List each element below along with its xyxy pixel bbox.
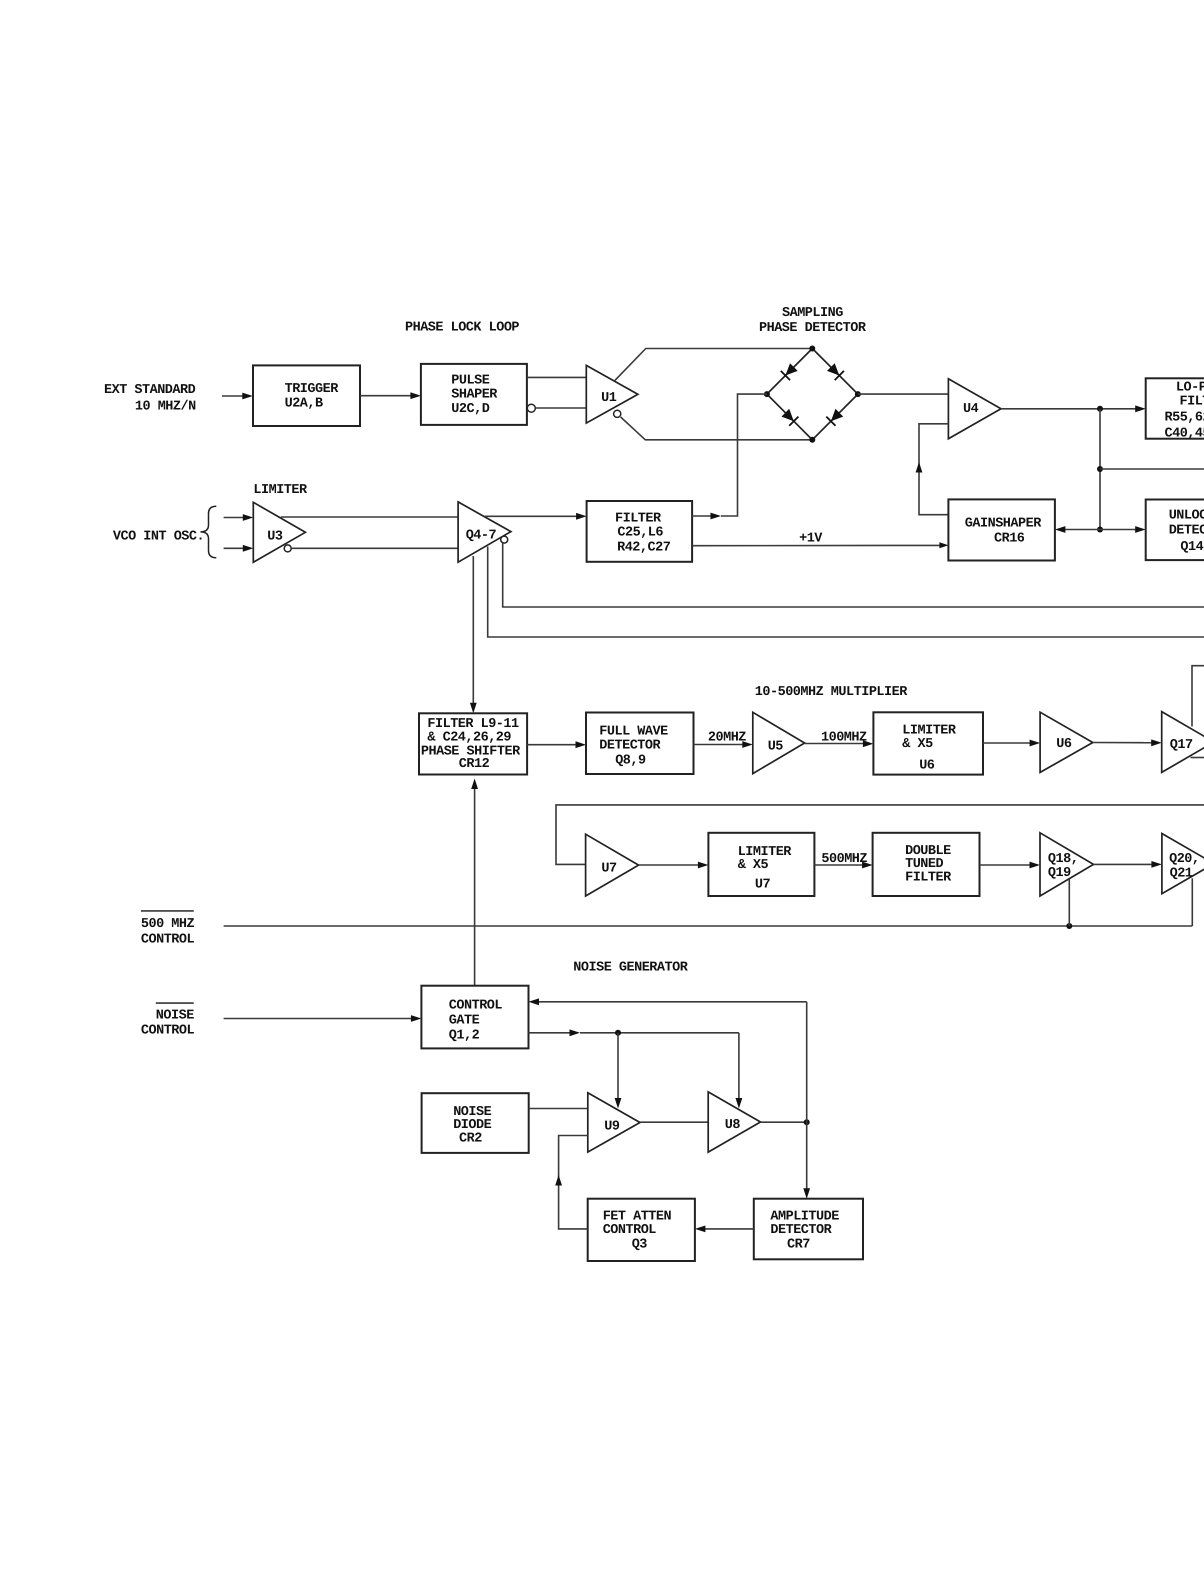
svg-text:U5: U5 [768, 740, 784, 755]
block LIMITER X5 U7 [708, 833, 814, 896]
svg-text:CR7: CR7 [787, 1238, 810, 1253]
junction dot bridge bottom [809, 437, 815, 443]
svg-text:U2C,D: U2C,D [451, 402, 489, 417]
svg-text:Q4-7: Q4-7 [466, 529, 497, 544]
wire junction vertical [1099, 409, 1101, 530]
label 500 MHZ CONTROL with overline [141, 910, 194, 912]
wire NOISE control to CONTROL GATE [224, 1018, 415, 1020]
svg-text:20MHZ: 20MHZ [708, 731, 746, 746]
diode CR top-left (top to left) [785, 363, 797, 375]
svg-text:C25,L6: C25,L6 [617, 526, 663, 541]
svg-text:10 MHZ/N: 10 MHZ/N [135, 400, 196, 415]
svg-text:U7: U7 [601, 861, 617, 876]
wire FET ATTEN to U9 lower input [559, 1136, 588, 1229]
svg-text:U4: U4 [963, 402, 979, 417]
svg-text:CR2: CR2 [459, 1132, 482, 1147]
svg-text:U6: U6 [919, 759, 935, 774]
wire U9 to U8 [640, 1121, 708, 1123]
block DOUBLE TUNED FILTER [873, 833, 980, 896]
wire U5 to LIMITER X5 U6 [805, 743, 867, 745]
diode CR bottom-left (left to bottom) [782, 409, 794, 421]
svg-text:Q8,9: Q8,9 [615, 754, 646, 769]
block LO-PASS FILTER R55,62 C40,45 [1146, 378, 1204, 438]
diode bridge ring [767, 349, 858, 440]
svg-text:CONTROL: CONTROL [141, 1024, 195, 1039]
svg-text:GAINSHAPER: GAINSHAPER [965, 517, 1042, 532]
svg-text:C40,45,46: C40,45,46 [1165, 427, 1204, 442]
svg-text:NOISE: NOISE [156, 1009, 194, 1024]
svg-text:& X5: & X5 [902, 737, 933, 752]
svg-text:DETECTOR: DETECTOR [770, 1223, 832, 1238]
op-amp U1 [586, 365, 638, 423]
block GAINSHAPER CR16 [948, 499, 1055, 560]
svg-text:Q19: Q19 [1048, 866, 1071, 881]
wire U6 to Q17 [1093, 742, 1155, 744]
wire control up to Q18 Q19 [1068, 879, 1070, 926]
svg-text:R42,C27: R42,C27 [617, 541, 671, 556]
svg-text:CR16: CR16 [994, 532, 1025, 547]
svg-text:FILTER: FILTER [615, 512, 662, 527]
wire LIMITER U6 to U6 amp [983, 742, 1034, 744]
wire LIMITER U7 to DOUBLE TUNED FILTER [814, 864, 866, 866]
wire PULSE SHAPER to U1 upper [527, 376, 586, 378]
svg-text:UNLOCK: UNLOCK [1169, 509, 1204, 524]
wire EXT STANDARD input [222, 395, 246, 397]
block PULSE SHAPER U2C,D [421, 364, 527, 425]
wire U7 to LIMITER X5 U7 [639, 864, 702, 866]
svg-text:Q14,15: Q14,15 [1180, 540, 1204, 555]
svg-text:U2A,B: U2A,B [285, 397, 323, 412]
wire NOISE DIODE to U9 [529, 1108, 588, 1110]
svg-text:PHASE LOCK LOOP: PHASE LOCK LOOP [405, 321, 519, 336]
svg-text:U8: U8 [725, 1118, 741, 1133]
wire Q4-7 drop to long line 637 [488, 547, 1204, 638]
wire U1 lower output to bridge bottom [621, 417, 813, 440]
svg-text:Q20,: Q20, [1169, 852, 1199, 867]
block FET ATTEN CONTROL Q3 [588, 1199, 695, 1261]
svg-text:TRIGGER: TRIGGER [285, 382, 340, 397]
svg-text:LO-PASS: LO-PASS [1176, 381, 1204, 396]
wire U3 upper output to Q4-7 [281, 516, 458, 518]
wire control up to Q20 Q21 [1191, 878, 1193, 926]
brace for VCO INT OSC inputs [201, 506, 217, 558]
op-amp U3 [253, 502, 305, 562]
diode CR bottom-right (right to bottom) [831, 409, 843, 421]
block FILTER L9-11 C24,26,29 PHASE SHIFTER CR12 [419, 713, 527, 774]
wire DOUBLE TUNED to Q18 Q19 [980, 864, 1034, 866]
wire VCO input upper [224, 517, 247, 519]
diode CR top-right (top to right) [827, 363, 839, 375]
svg-text:GATE: GATE [449, 1014, 480, 1029]
wire U3 lower output to Q4-7 [291, 547, 458, 549]
svg-text:U6: U6 [1056, 737, 1072, 752]
wire VCO input lower [224, 547, 247, 549]
wire PULSE SHAPER to U1 lower [535, 407, 586, 409]
svg-text:NOISE GENERATOR: NOISE GENERATOR [573, 961, 688, 976]
svg-text:& C24,26,29: & C24,26,29 [427, 731, 511, 746]
svg-text:U1: U1 [601, 391, 617, 406]
wire gate output down to U8 [738, 1033, 740, 1102]
op-amp U9 [588, 1093, 640, 1152]
svg-text:Q17: Q17 [1170, 738, 1193, 753]
junction dot on U4 output [1097, 406, 1103, 412]
wire 500 MHZ control line [224, 925, 1193, 927]
wire feedback line y805 [556, 805, 1204, 865]
wire U8 output to junction [761, 1121, 807, 1123]
block AMPLITUDE DETECTOR CR7 [754, 1199, 863, 1260]
svg-text:CR12: CR12 [459, 757, 490, 772]
op-amp Q20 Q21 [1162, 834, 1204, 894]
op-amp U7 [586, 834, 639, 896]
op-amp Q4-7 [458, 502, 511, 562]
wire U8 junction down to AMPLITUDE DETECTOR [806, 1122, 808, 1192]
op-amp U5 [753, 712, 805, 773]
op-amp Q18 Q19 [1040, 833, 1094, 896]
svg-text:EXT STANDARD: EXT STANDARD [104, 383, 196, 398]
wire U1 upper output to bridge top [615, 349, 812, 381]
wire U8 junction up to feedback [806, 1002, 808, 1122]
svg-text:+1V: +1V [799, 532, 823, 547]
wire bridge right to U4 [858, 393, 949, 395]
junction dot control line [1066, 923, 1072, 929]
inversion bubble on Q4-7 lower edge [501, 536, 508, 543]
wire Q17 output stub [1191, 757, 1204, 759]
wire U4 output to LO-PASS FILTER [1001, 408, 1140, 410]
svg-text:PULSE: PULSE [451, 374, 489, 389]
wire CR12 to FULL WAVE DETECTOR [527, 744, 579, 746]
svg-text:500 MHZ: 500 MHZ [141, 917, 195, 932]
block FULL WAVE DETECTOR Q8,9 [586, 713, 694, 775]
wire TRIGGER to PULSE SHAPER [360, 395, 415, 397]
svg-text:FILTER: FILTER [1180, 395, 1204, 410]
svg-text:CONTROL: CONTROL [141, 932, 195, 947]
svg-text:10-500MHZ MULTIPLIER: 10-500MHZ MULTIPLIER [755, 685, 908, 700]
wire junction to UNLOCK DETECTOR [1100, 529, 1140, 531]
wire AMPLITUDE DETECTOR to FET ATTEN [701, 1228, 753, 1230]
svg-text:FILTER: FILTER [905, 871, 952, 886]
wire feedback into CONTROL GATE [535, 1001, 807, 1003]
svg-text:SAMPLING: SAMPLING [782, 306, 843, 321]
inversion bubble on U3 lower edge [284, 545, 291, 552]
op-amp U6 [1040, 712, 1093, 772]
block CONTROL GATE Q1,2 [421, 986, 528, 1049]
inversion bubble on U1 lower edge [614, 410, 621, 417]
wire junction to GAINSHAPER [1061, 529, 1100, 531]
wire Q18 to Q20 [1094, 863, 1156, 865]
svg-text:VCO INT OSC.: VCO INT OSC. [113, 530, 204, 545]
op-amp Q17 [1162, 712, 1204, 773]
block LIMITER X5 U6 [873, 712, 983, 774]
wire GAINSHAPER to U4 lower input [919, 424, 948, 515]
block TRIGGER U2A,B [253, 365, 360, 426]
svg-text:Q21: Q21 [1170, 867, 1193, 882]
junction dot bridge right [855, 391, 861, 397]
svg-text:PHASE DETECTOR: PHASE DETECTOR [759, 321, 867, 336]
inversion bubble on PULSE SHAPER lower output [527, 404, 535, 412]
label NOISE CONTROL with overline [156, 1002, 194, 1004]
svg-text:CONTROL: CONTROL [449, 999, 503, 1014]
svg-text:Q1,2: Q1,2 [449, 1029, 480, 1044]
wire FILTER up to bridge left [692, 515, 714, 517]
junction dot lower [1097, 527, 1103, 533]
junction dot gate output [615, 1030, 621, 1036]
junction dot mid [1097, 466, 1103, 472]
wire FILTER +1V to GAINSHAPER [692, 544, 942, 546]
svg-text:DETECTOR: DETECTOR [1169, 524, 1204, 539]
wire Q4-7 bubble drop to long line 607 [503, 543, 1204, 607]
svg-text:Q18,: Q18, [1048, 852, 1078, 867]
svg-text:FULL WAVE: FULL WAVE [599, 725, 668, 740]
svg-text:U9: U9 [604, 1119, 620, 1134]
svg-text:U3: U3 [267, 530, 283, 545]
junction dot bridge left [764, 391, 770, 397]
block UNLOCK DETECTOR Q14 [1146, 500, 1204, 561]
wire into Q17 from right edge [1192, 666, 1204, 727]
op-amp U8 [708, 1092, 760, 1152]
svg-text:& X5: & X5 [738, 858, 769, 873]
svg-text:SHAPER: SHAPER [451, 388, 498, 403]
wire Q4-7 upper output to FILTER [485, 515, 580, 517]
wire CONTROL GATE output [529, 1032, 574, 1034]
wire FULL WAVE to U5 [694, 744, 747, 746]
svg-text:CONTROL: CONTROL [603, 1223, 657, 1238]
wire gate output down to U9 [617, 1033, 619, 1102]
svg-text:Q3: Q3 [632, 1238, 648, 1253]
wire CONTROL GATE up to PHASE SHIFTER [474, 781, 476, 985]
op-amp U4 [948, 379, 1001, 439]
wire to right edge at 469 [1100, 468, 1204, 470]
junction dot U8 output [804, 1119, 810, 1125]
block NOISE DIODE CR2 [422, 1093, 529, 1153]
block FILTER C25,L6 R42,C27 [587, 501, 693, 562]
junction dot bridge top [809, 346, 815, 352]
svg-text:DETECTOR: DETECTOR [599, 739, 661, 754]
wire Q4-7 drop to PHASE SHIFTER [472, 556, 474, 707]
svg-text:U7: U7 [755, 878, 771, 893]
svg-text:R55,62: R55,62 [1165, 411, 1204, 426]
svg-text:LIMITER: LIMITER [253, 483, 308, 498]
